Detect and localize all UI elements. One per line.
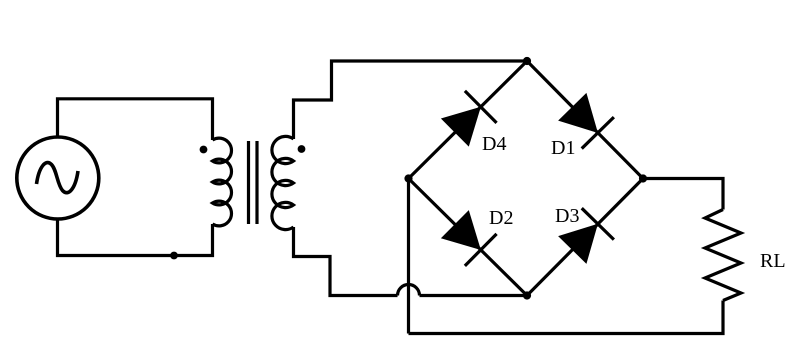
transformer secondary coil L2 [272,136,294,229]
svg-text:D2: D2 [489,207,513,229]
node dot: bridge left [404,174,412,182]
junction dot on bottom wire [170,252,178,260]
diode D1 [556,91,614,149]
wire: secondary top to bridge top node [294,61,528,139]
wire: bridge right node to RL top [643,179,723,210]
wire: bridge edge bottom-right (D3 edge) [527,179,643,296]
wire: left loop bottom [58,219,213,256]
wire: bridge edge top-right (D1 edge) [527,61,643,179]
wire: left loop top [58,99,213,140]
AC source V1 [17,137,99,219]
transformer core [249,141,258,224]
svg-text:RL: RL [760,250,786,272]
wire: bridge edge left-bottom (D2 edge) [409,179,528,296]
primary phase dot [200,146,208,154]
wire: RL bottom to bottom bus [409,301,724,334]
node dot: bridge top [523,57,531,65]
node dot: bridge bottom [523,291,531,299]
diode D4 [439,91,497,149]
resistor RL [705,210,741,301]
svg-text:D4: D4 [482,133,506,155]
wire: bridge edge left-top (D4 edge) [409,61,528,179]
node dot: bridge right [639,174,647,182]
wire: bridge left node down through hop to bottom bus [407,179,410,334]
wire: hop to bridge bottom node [420,294,528,297]
secondary phase dot [298,145,306,153]
diode D3 [556,208,614,266]
diode D2 [439,208,497,266]
svg-text:D3: D3 [555,205,579,227]
wire: secondary bottom step [294,227,398,296]
wire hop over left-node wire [398,285,420,296]
transformer primary coil L1 [213,138,232,226]
svg-text:D1: D1 [551,137,575,159]
